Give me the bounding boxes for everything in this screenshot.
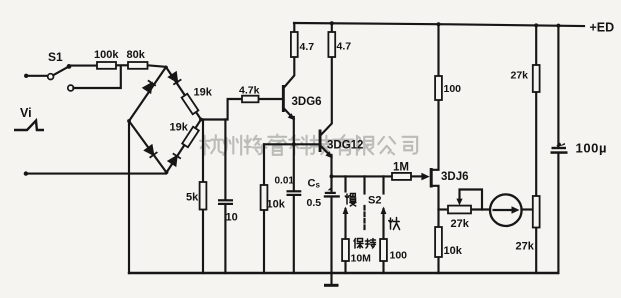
svg-text:0.5: 0.5 (307, 197, 322, 209)
svg-text:27k: 27k (511, 70, 529, 82)
svg-text:4.7: 4.7 (337, 41, 352, 53)
svg-text:100µ: 100µ (576, 141, 608, 156)
svg-text:100: 100 (444, 83, 462, 95)
svg-text:10: 10 (226, 212, 238, 224)
svg-text:10k: 10k (444, 245, 463, 257)
svg-text:100: 100 (390, 250, 408, 262)
svg-text:100k: 100k (94, 49, 119, 61)
svg-text:3DJ6: 3DJ6 (441, 171, 469, 183)
svg-text:1M: 1M (393, 162, 409, 174)
svg-text:3DG12: 3DG12 (327, 140, 363, 152)
svg-text:4.7: 4.7 (300, 41, 315, 53)
svg-text:27k: 27k (516, 241, 535, 253)
svg-text:5k: 5k (186, 192, 199, 204)
svg-text:+ED: +ED (590, 21, 615, 35)
svg-text:S1: S1 (48, 50, 63, 64)
svg-text:Vi: Vi (20, 106, 32, 120)
svg-text:10k: 10k (267, 199, 286, 211)
svg-text:3DG6: 3DG6 (292, 96, 322, 108)
svg-text:80k: 80k (127, 49, 146, 61)
svg-text:S2: S2 (368, 195, 381, 207)
svg-text:4.7k: 4.7k (239, 85, 260, 97)
svg-text:0.01: 0.01 (275, 176, 295, 187)
svg-text:19k: 19k (170, 122, 189, 134)
svg-text:27k: 27k (451, 218, 470, 230)
svg-text:10M: 10M (351, 253, 372, 265)
svg-text:19k: 19k (194, 87, 213, 99)
